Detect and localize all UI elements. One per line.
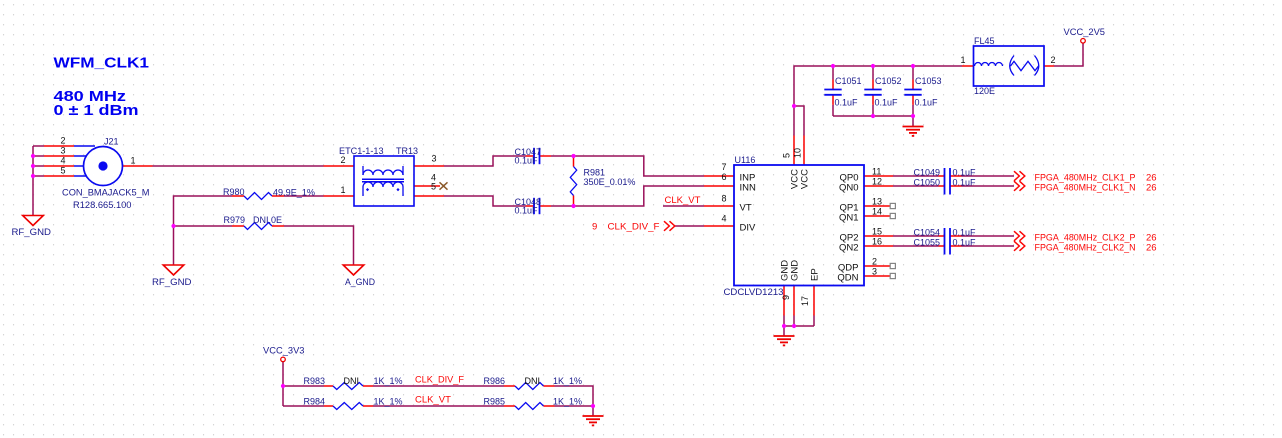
svg-text:QN0: QN0 — [839, 182, 859, 193]
svg-text:C1052: C1052 — [875, 76, 902, 86]
svg-text:U116: U116 — [735, 155, 756, 165]
svg-text:RF_GND: RF_GND — [12, 227, 52, 237]
svg-text:120E: 120E — [974, 86, 995, 96]
svg-text:0.1uF: 0.1uF — [953, 168, 977, 178]
svg-text:R981: R981 — [584, 168, 606, 178]
svg-text:8: 8 — [721, 193, 726, 203]
svg-text:CLK_VT: CLK_VT — [415, 395, 451, 406]
svg-text:R985: R985 — [484, 396, 506, 406]
svg-text:VCC_2V5: VCC_2V5 — [1064, 27, 1106, 37]
svg-text:CLK_DIV_F: CLK_DIV_F — [608, 222, 660, 233]
svg-text:5: 5 — [60, 165, 65, 175]
svg-text:FPGA_480MHz_CLK1_N: FPGA_480MHz_CLK1_N — [1035, 182, 1136, 193]
svg-text:1K_1%: 1K_1% — [374, 396, 403, 406]
svg-text:R983: R983 — [304, 376, 326, 386]
svg-text:INN: INN — [740, 182, 757, 193]
svg-text:0.1uF: 0.1uF — [515, 156, 539, 166]
svg-text:DIV: DIV — [740, 222, 757, 233]
svg-text:1K_1%: 1K_1% — [553, 396, 582, 406]
svg-text:VCC_3V3: VCC_3V3 — [263, 345, 305, 355]
svg-text:16: 16 — [872, 236, 882, 246]
svg-text:6: 6 — [721, 172, 726, 182]
svg-text:VCC: VCC — [800, 169, 811, 189]
svg-text:9: 9 — [592, 222, 597, 233]
svg-text:3: 3 — [60, 145, 65, 155]
svg-text:R984: R984 — [304, 396, 326, 406]
svg-text:CLK_VT: CLK_VT — [665, 195, 701, 206]
svg-text:R979: R979 — [224, 215, 246, 225]
svg-text:CON_BMAJACK5_M: CON_BMAJACK5_M — [62, 187, 150, 197]
svg-text:1: 1 — [340, 185, 345, 195]
svg-text:C1054: C1054 — [914, 228, 941, 238]
svg-text:RF_GND: RF_GND — [152, 277, 192, 287]
svg-text:EP: EP — [810, 268, 821, 281]
svg-text:FL45: FL45 — [974, 36, 995, 46]
svg-text:CLK_DIV_F: CLK_DIV_F — [415, 375, 464, 386]
svg-text:C1049: C1049 — [914, 168, 941, 178]
svg-text:WFM_CLK1: WFM_CLK1 — [54, 54, 150, 71]
svg-text:1K_1%: 1K_1% — [553, 376, 582, 386]
svg-text:R980: R980 — [223, 187, 245, 197]
svg-text:0.1uF: 0.1uF — [915, 97, 939, 107]
svg-text:49.9E_1%: 49.9E_1% — [273, 187, 315, 197]
svg-text:9: 9 — [781, 295, 791, 300]
svg-text:R128.665.100: R128.665.100 — [73, 200, 132, 210]
svg-text:0.1uF: 0.1uF — [953, 237, 977, 247]
svg-text:5: 5 — [431, 182, 436, 192]
svg-text:26: 26 — [1146, 242, 1157, 253]
svg-text:0.1uF: 0.1uF — [953, 228, 977, 238]
svg-text:QN2: QN2 — [839, 242, 859, 253]
svg-text:2: 2 — [60, 135, 65, 145]
svg-text:C1053: C1053 — [915, 76, 942, 86]
svg-text:3: 3 — [872, 266, 877, 276]
svg-text:2: 2 — [340, 155, 345, 165]
svg-text:7: 7 — [721, 162, 726, 172]
svg-text:5: 5 — [782, 153, 792, 158]
svg-text:C1051: C1051 — [835, 76, 862, 86]
svg-text:C1055: C1055 — [914, 237, 941, 247]
svg-text:TR13: TR13 — [396, 146, 418, 156]
svg-text:13: 13 — [872, 196, 882, 206]
svg-text:FPGA_480MHz_CLK2_N: FPGA_480MHz_CLK2_N — [1035, 242, 1136, 253]
svg-text:1K_1%: 1K_1% — [374, 376, 403, 386]
svg-text:2: 2 — [872, 256, 877, 266]
svg-text:0.1uF: 0.1uF — [953, 177, 977, 187]
svg-text:ETC1-1-13: ETC1-1-13 — [339, 146, 384, 156]
svg-text:2: 2 — [1050, 55, 1055, 65]
svg-text:DNI: DNI — [344, 376, 360, 386]
svg-text:10: 10 — [793, 148, 803, 158]
svg-text:QN1: QN1 — [839, 212, 859, 223]
svg-text:17: 17 — [800, 296, 810, 306]
svg-text:3: 3 — [431, 154, 436, 164]
svg-text:QDN: QDN — [837, 272, 858, 283]
svg-text:GND: GND — [790, 260, 801, 281]
svg-text:VT: VT — [740, 202, 752, 213]
svg-text:0 ± 1 dBm: 0 ± 1 dBm — [54, 102, 139, 119]
svg-text:4: 4 — [721, 213, 726, 223]
svg-text:A_GND: A_GND — [345, 277, 375, 287]
svg-text:CDCLVD1213: CDCLVD1213 — [724, 287, 784, 297]
svg-text:26: 26 — [1146, 182, 1157, 193]
svg-text:DNI,0E: DNI,0E — [253, 215, 282, 225]
svg-text:R986: R986 — [484, 376, 506, 386]
svg-text:14: 14 — [872, 206, 882, 216]
svg-text:J21: J21 — [104, 137, 119, 147]
svg-text:0.1uF: 0.1uF — [835, 97, 859, 107]
svg-text:15: 15 — [872, 227, 882, 237]
svg-text:DNI: DNI — [525, 376, 541, 386]
svg-text:0.1uF: 0.1uF — [515, 206, 539, 216]
svg-text:350E_0.01%: 350E_0.01% — [584, 177, 636, 187]
svg-text:4: 4 — [60, 155, 65, 165]
svg-text:0.1uF: 0.1uF — [875, 97, 899, 107]
svg-text:12: 12 — [872, 176, 882, 186]
svg-text:1: 1 — [960, 55, 965, 65]
svg-text:11: 11 — [872, 166, 881, 176]
svg-text:1: 1 — [130, 155, 135, 165]
svg-text:C1050: C1050 — [914, 177, 941, 187]
